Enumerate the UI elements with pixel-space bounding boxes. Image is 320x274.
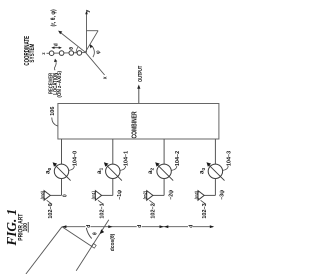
wire from combiner to multiplier 104-1 <box>112 139 114 164</box>
dimension arrow d between e0 e1 <box>52 47 61 49</box>
svg-text:d: d <box>137 225 143 228</box>
svg-text:x: x <box>103 76 109 79</box>
dimension arrowhead at element 3 / axis end <box>210 225 214 228</box>
antenna 102-3 <box>198 191 204 201</box>
svg-text:COMBINER: COMBINER <box>132 111 139 139</box>
svg-text:FIG. 1: FIG. 1 <box>4 209 19 247</box>
wire projection top edge <box>87 30 99 32</box>
antenna 102-2 <box>147 191 153 201</box>
svg-text:θ: θ <box>69 47 75 50</box>
svg-text:102–1: 102–1 <box>99 203 105 218</box>
theta angle arc (coordinate system) <box>76 47 79 54</box>
svg-text:(rn2): (rn2) <box>142 191 148 200</box>
svg-text:(r, θ, φ): (r, θ, φ) <box>51 9 57 26</box>
svg-text:104–2: 104–2 <box>175 151 181 166</box>
wire output arrow <box>138 88 140 104</box>
dimension arrowhead at element 1 <box>108 225 112 228</box>
node array axis (bottom) <box>62 226 213 228</box>
wire wavefront through element 0 <box>62 227 92 247</box>
svg-text:θ: θ <box>93 232 99 235</box>
wire from multiplier 104-3 to antenna 102-3 <box>214 179 216 196</box>
svg-text:SYSTEM: SYSTEM <box>29 43 36 62</box>
multiplier 104-0 <box>54 164 68 178</box>
svg-text:(rn0): (rn0) <box>39 191 45 200</box>
antenna element circle e1 on z-axis <box>59 51 64 56</box>
antenna 102-0 <box>44 191 50 201</box>
phi angle arc with arrow <box>90 45 94 58</box>
svg-text:102–0: 102–0 <box>48 203 54 218</box>
svg-text:φ: φ <box>96 50 102 54</box>
dimension arrowheads at element 2 <box>160 225 164 228</box>
node y-axis <box>86 13 88 53</box>
label 102-0 with leader <box>47 200 52 204</box>
svg-text:102–3: 102–3 <box>202 203 208 218</box>
wire from multiplier 104-1 to antenna 102-1 <box>112 179 114 196</box>
multiplier 104-1 <box>106 164 120 178</box>
label 102-3 with leader <box>201 200 206 204</box>
svg-text:d: d <box>86 225 92 228</box>
wire incoming ray with arrow (element 1) <box>76 220 109 271</box>
label 102-2 with leader <box>149 200 154 204</box>
svg-text:(rn3): (rn3) <box>193 191 199 200</box>
antenna element circle e2 on z-axis <box>69 51 74 56</box>
wire from multiplier 104-0 to antenna 102-0 <box>61 179 63 196</box>
wire from combiner to multiplier 104-0 <box>61 139 63 164</box>
wire leader from receiver-location label to z-axis elements <box>54 61 56 70</box>
multiplier 104-2 <box>157 164 171 178</box>
theta angle arc (array) <box>86 228 91 239</box>
node coordinate-system z-axis <box>47 52 86 55</box>
svg-text:106: 106 <box>50 107 56 116</box>
label 102-1 with leader <box>98 200 103 204</box>
svg-text:–1ψ: –1ψ <box>117 190 123 200</box>
antenna element circle e3 on z-axis <box>77 51 82 56</box>
svg-text:104–0: 104–0 <box>72 151 78 166</box>
wire incoming ray through element 0 <box>26 227 62 274</box>
svg-text:104–3: 104–3 <box>226 151 232 166</box>
wire r-vector arrow to far-field point <box>60 32 86 52</box>
value label d (span 0-1) <box>86 223 91 229</box>
svg-text:–2ψ: –2ψ <box>168 190 174 200</box>
antenna 102-1 <box>95 191 101 201</box>
value label d (span 1-2) <box>137 223 142 229</box>
svg-text:104–1: 104–1 <box>124 151 130 166</box>
dimension arrowhead at element 0 <box>62 225 66 228</box>
svg-text:0: 0 <box>62 194 68 197</box>
wire projection diagonal to origin <box>85 31 98 53</box>
svg-text:(rn1): (rn1) <box>91 191 97 200</box>
combiner U106 box <box>58 104 219 140</box>
multiplier 104-3 <box>208 164 222 178</box>
svg-text:102–2: 102–2 <box>151 203 157 218</box>
wire from multiplier 104-2 to antenna 102-2 <box>163 179 165 196</box>
svg-text:d: d <box>188 225 194 228</box>
svg-text:(ON z–AXIS): (ON z–AXIS) <box>57 71 64 98</box>
svg-text:OUTPUT: OUTPUT <box>137 66 144 82</box>
value label d (span 2-3) <box>188 223 193 229</box>
svg-text:dcos(θ): dcos(θ) <box>110 233 116 251</box>
node x-axis <box>85 52 104 75</box>
right-angle square at wavefront foot <box>92 244 97 249</box>
wire from combiner to multiplier 104-2 <box>163 139 165 164</box>
svg-text:d: d <box>53 43 59 46</box>
svg-text:–3ψ: –3ψ <box>220 190 226 200</box>
wire from combiner to multiplier 104-3 <box>214 139 216 164</box>
antenna element circle e0 on z-axis <box>49 51 54 56</box>
